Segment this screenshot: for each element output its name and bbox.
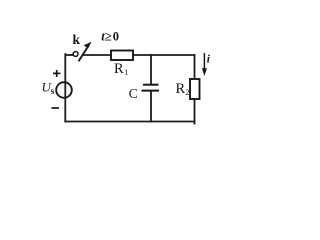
svg-text:R: R (176, 81, 186, 97)
svg-text:s: s (51, 86, 55, 96)
svg-text:2: 2 (185, 88, 189, 97)
svg-text:1: 1 (124, 68, 128, 77)
svg-text:C: C (129, 86, 138, 101)
svg-text:i: i (207, 54, 211, 66)
svg-text:k: k (73, 32, 81, 47)
svg-text:0: 0 (113, 30, 119, 44)
svg-text:≥: ≥ (105, 28, 112, 43)
svg-text:R: R (114, 61, 124, 77)
